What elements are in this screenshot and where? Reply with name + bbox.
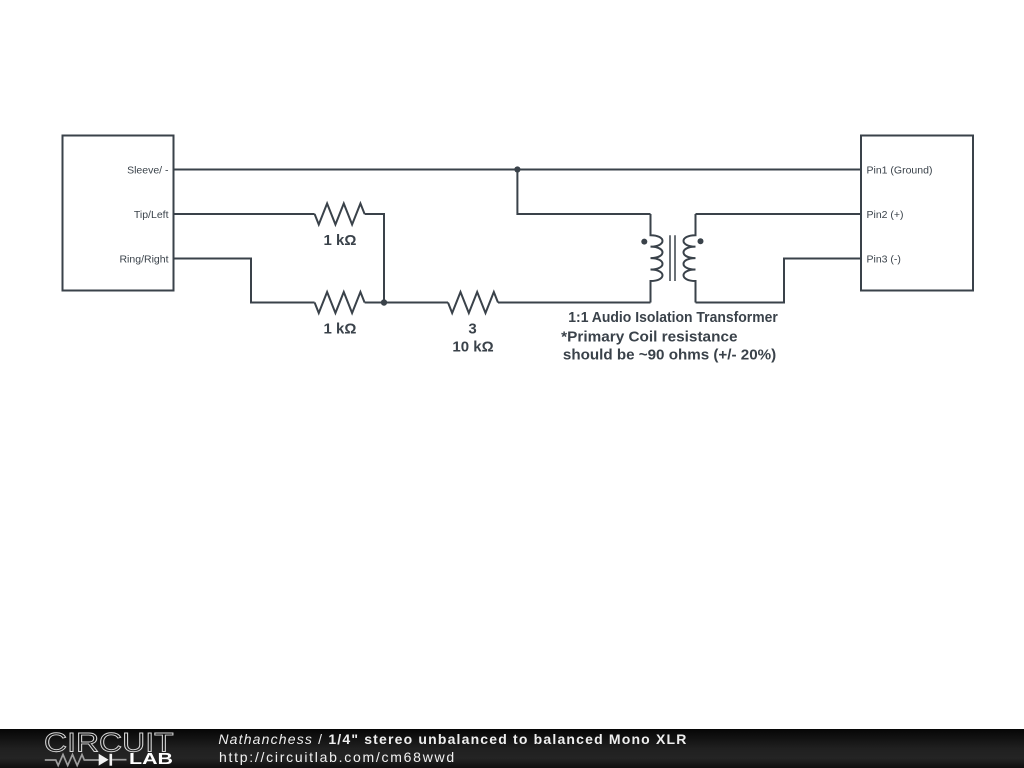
- footer black bar: [0, 729, 1024, 768]
- svg-text:should be ~90 ohms (+/- 20%): should be ~90 ohms (+/- 20%): [563, 346, 776, 363]
- svg-text:*Primary Coil resistance: *Primary Coil resistance: [561, 329, 737, 346]
- svg-text:Nathanchess / 1/4" stereo unba: Nathanchess / 1/4" stereo unbalanced to …: [218, 731, 687, 747]
- wire R3 to transformer primary bottom: [498, 302, 651, 304]
- svg-text:1:1 Audio Isolation Transforme: 1:1 Audio Isolation Transformer: [568, 309, 778, 326]
- wire sleeve to Pin1: [174, 169, 862, 171]
- transformer T1 primary winding: [651, 214, 663, 303]
- wire R1 output down to node: [365, 214, 384, 303]
- svg-text:1 kΩ: 1 kΩ: [324, 320, 357, 337]
- wire tip/left to R1: [174, 213, 315, 215]
- svg-text:3: 3: [468, 321, 476, 338]
- svg-text:Pin1 (Ground): Pin1 (Ground): [867, 164, 933, 176]
- svg-text:http://circuitlab.com/cm68wwd: http://circuitlab.com/cm68wwd: [219, 749, 456, 765]
- transformer secondary phase dot: [698, 238, 704, 244]
- resistor R2: [315, 292, 365, 313]
- XLR connector box: [861, 136, 973, 291]
- transformer T1 secondary winding: [684, 214, 696, 303]
- wire node to R3: [384, 302, 448, 304]
- junction node R1/R2/R3: [381, 299, 387, 305]
- resistor R3: [448, 292, 498, 313]
- wire junction to transformer primary top: [517, 170, 650, 215]
- logo diode symbol: [99, 754, 109, 766]
- svg-text:1 kΩ: 1 kΩ: [324, 232, 357, 249]
- svg-text:Tip/Left: Tip/Left: [134, 209, 169, 221]
- junction node on sleeve line: [514, 166, 520, 172]
- svg-text:Sleeve/ -: Sleeve/ -: [127, 164, 169, 176]
- svg-text:Pin3 (-): Pin3 (-): [867, 253, 901, 265]
- svg-text:LAB: LAB: [129, 751, 173, 768]
- logo resistor-diode squiggle: [45, 755, 99, 766]
- 1/4in TRS jack box J1: [63, 136, 174, 291]
- svg-text:Ring/Right: Ring/Right: [119, 253, 168, 265]
- wire ring/right to R2: [174, 259, 315, 303]
- transformer primary phase dot: [641, 239, 647, 245]
- svg-text:10 kΩ: 10 kΩ: [452, 338, 493, 355]
- svg-text:Pin2 (+): Pin2 (+): [867, 209, 904, 221]
- wire secondary top to Pin2: [696, 213, 862, 215]
- wire R2 output to node: [365, 302, 384, 304]
- wire secondary bottom to Pin3: [696, 259, 862, 303]
- transformer core bars: [670, 235, 675, 281]
- resistor R1: [315, 204, 365, 225]
